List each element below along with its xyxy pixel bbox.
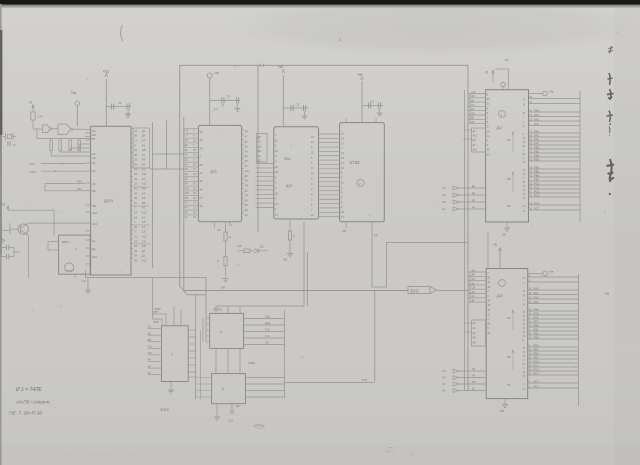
IC D18 internal port marks (512, 310, 514, 330)
svg-text:ПР: ПР (185, 196, 189, 200)
capacitor C4 (0, 247, 6, 249)
DD7 right wires (188, 329, 195, 331)
IC D17 bottom ground (506, 222, 508, 228)
wire rail left end (84, 270, 86, 278)
svg-text:БУС: БУС (411, 288, 419, 293)
wire down to ground G1 (87, 278, 89, 289)
resistor R2 (50, 140, 53, 151)
svg-text:17: 17 (134, 139, 137, 143)
DD7 left pin stubs (148, 328, 162, 330)
svg-text:РА4: РА4 (534, 307, 539, 311)
svg-text:А1: А1 (185, 215, 189, 219)
svg-text:П16: П16 (77, 180, 82, 184)
svg-text:+5в: +5в (504, 58, 509, 62)
svg-text:А7: А7 (142, 191, 146, 195)
svg-text:РА2: РА2 (534, 295, 539, 299)
wire gate input network (33, 128, 42, 130)
svg-text:РВ7: РВ7 (534, 355, 540, 359)
svg-text:Д2: Д2 (245, 154, 249, 158)
IC DD5 body (serial) (210, 313, 244, 348)
capacitor C5 (0, 256, 6, 258)
wire D101 bottom rail (85, 278, 206, 314)
series RC row below D11 (237, 250, 244, 252)
quartz crystal Q1 (5, 133, 7, 140)
svg-text:СЕ: СЕ (218, 229, 222, 232)
svg-text:РС3: РС3 (534, 193, 540, 197)
svg-text:А10: А10 (185, 191, 190, 195)
wire vertical x166 (165, 120, 167, 169)
faint mark bottom right of center (387, 447, 394, 451)
svg-text:А1: А1 (92, 239, 96, 243)
svg-text:+5: +5 (29, 101, 33, 105)
svg-text:38: 38 (134, 134, 137, 138)
svg-text:ДхД: ДхД (265, 321, 270, 325)
wire transistor collector (26, 223, 85, 224)
svg-text:С3: С3 (227, 95, 231, 99)
svg-text:СТ: СТ (142, 153, 146, 157)
right margin dot (609, 193, 611, 195)
transistor VT1 (18, 224, 28, 234)
svg-text:РА6: РА6 (534, 315, 539, 319)
svg-text:РС2: РС2 (534, 367, 540, 371)
svg-text:Д3: Д3 (245, 159, 249, 163)
svg-text:RD: RD (142, 201, 146, 205)
IC D18 body (486, 269, 528, 399)
svg-text:А12: А12 (471, 91, 476, 94)
svg-text:И 1 = 74ЛЕ: И 1 = 74ЛЕ (16, 387, 42, 393)
svg-text:А2: А2 (142, 215, 146, 219)
crystal circle inside G1 (65, 263, 74, 272)
svg-text:РА5: РА5 (534, 311, 539, 315)
svg-text:CS: CS (142, 239, 146, 243)
D18 top right +5B circle (528, 273, 543, 275)
svg-text:СТ: СТ (185, 134, 189, 138)
svg-text:А12: А12 (142, 211, 147, 215)
svg-text:Д5: Д5 (185, 158, 189, 162)
power +5V feed of D11 (209, 78, 211, 125)
DD6 right signal lines (245, 377, 284, 379)
svg-text:РС3: РС3 (534, 371, 540, 375)
svg-text:РВ3: РВ3 (534, 157, 540, 161)
scanner top black bar (0, 0, 640, 4)
svg-text:16: 16 (134, 211, 137, 215)
svg-text:РА7: РА7 (534, 141, 539, 145)
right margin smudge 5 (608, 127, 611, 136)
svg-text:ПА: ПА (507, 317, 511, 320)
svg-text:CS: CS (185, 129, 189, 133)
signal bus vertical x284 (284, 310, 286, 398)
svg-text:36: 36 (134, 196, 137, 200)
IC D11 right pin labels (242, 129, 244, 131)
bus frame second vertical (184, 117, 206, 295)
svg-text:РВ5: РВ5 (534, 169, 540, 173)
svg-text:РА0: РА0 (534, 108, 539, 112)
svg-text:36: 36 (134, 225, 137, 229)
svg-text:ВК: ВК (245, 203, 249, 207)
IC D17 left data pin group (468, 93, 486, 95)
bus vertical x206 lower (205, 313, 207, 342)
IC D18 lower-left control pins (460, 370, 487, 372)
decoupling capacitors of D13 (283, 107, 308, 109)
IC D18 bottom ground (504, 399, 506, 404)
logic gate DD1.1 (43, 125, 51, 133)
wire BUS to right section (437, 290, 469, 292)
svg-text:Д6: Д6 (245, 208, 249, 212)
svg-text:Д2: Д2 (245, 189, 249, 193)
right margin smudge 3 (607, 89, 614, 100)
svg-text:А13: А13 (148, 352, 153, 355)
svg-text:ОВ: ОВ (500, 409, 504, 413)
svg-text:А1: А1 (442, 389, 446, 393)
svg-text:33: 33 (134, 244, 137, 248)
svg-text:Д2: Д2 (142, 254, 146, 258)
right outer bus vertical lower (577, 274, 579, 406)
svg-text:R: R (293, 234, 295, 238)
svg-text:С6: С6 (371, 100, 375, 104)
svg-text:ПР: ПР (185, 138, 189, 142)
wires G1 left side (48, 241, 59, 243)
svg-text:РС0: РС0 (534, 359, 540, 363)
diode VD1 row (213, 222, 215, 228)
bus vertical x195 serial (195, 295, 197, 399)
svg-text:ТхС: ТхС (265, 334, 270, 338)
svg-text:РВ5: РВ5 (534, 347, 540, 351)
svg-text:ВМ: ВМ (148, 339, 152, 342)
resistor R3 (59, 140, 62, 151)
IC D17 left select group box (472, 128, 486, 152)
svg-text:РВ2: РВ2 (534, 331, 540, 335)
wire transistor emitter to rail (26, 234, 29, 242)
svg-text:А13: А13 (92, 255, 97, 259)
svg-text:ОЕ: ОЕ (245, 184, 249, 188)
svg-text:С/Вах: С/Вах (248, 361, 256, 365)
svg-text:23: 23 (134, 148, 137, 152)
svg-text:А3: А3 (142, 196, 146, 200)
svg-text:А4: А4 (257, 154, 261, 158)
svg-text:+5: +5 (2, 203, 6, 207)
power feed of D14 (361, 81, 363, 123)
svg-text:ТхД: ТхД (265, 315, 270, 319)
svg-text:А10: А10 (185, 186, 190, 190)
svg-text:4,7к: 4,7к (38, 115, 44, 119)
svg-text:ВК: ВК (471, 117, 475, 120)
faint paren mark top-left (121, 25, 123, 41)
svg-text:С1: С1 (118, 101, 122, 105)
IC D101 address/data label column (133, 128, 150, 168)
svg-text:А12: А12 (142, 259, 147, 263)
svg-text:С5: С5 (296, 103, 300, 107)
wire bus to D11 column (150, 168, 184, 170)
svg-text:ПВ: ПВ (507, 178, 511, 181)
bus vertical between D11 and D13 (257, 65, 259, 232)
svg-text:ТхД: ТхД (362, 378, 367, 382)
IC DD7 body left (162, 326, 189, 382)
power +5V feed of D18 (499, 248, 501, 269)
svg-text:39: 39 (134, 177, 137, 181)
svg-text:Д6: Д6 (142, 134, 146, 138)
svg-text:Д3: Д3 (245, 174, 249, 178)
wire from D17 down to D18 (487, 232, 489, 269)
svg-text:РС7: РС7 (534, 384, 540, 388)
IC D17 body (486, 90, 529, 222)
IC D14 top pin stubs (345, 118, 347, 123)
lower chain below D11 (224, 257, 227, 266)
svg-text:А12: А12 (92, 211, 97, 215)
svg-text:А1: А1 (442, 207, 446, 211)
svg-text:ПР: ПР (471, 121, 475, 124)
D17 top right +5B circle (529, 93, 543, 95)
svg-text:ПЗА: ПЗА (284, 157, 291, 161)
IC D18 right port lines (528, 276, 579, 278)
IC D11 body (198, 125, 241, 221)
svg-text:РС1: РС1 (534, 363, 540, 367)
svg-text:А5: А5 (245, 149, 249, 153)
svg-text:ЗП: ЗП (473, 342, 477, 345)
svg-text:+5в: +5в (549, 90, 554, 94)
signal P16 (45, 183, 85, 185)
svg-text:ЗП: ЗП (442, 193, 446, 197)
svg-text:А6: А6 (92, 182, 96, 186)
wire caps to box (13, 248, 15, 257)
right outer bus vertical upper (579, 91, 581, 222)
wire transistor base (10, 228, 18, 230)
svg-text:Д11: Д11 (211, 170, 218, 174)
DD7 top wires (165, 313, 167, 325)
svg-text:А5: А5 (185, 210, 189, 214)
svg-text:А0: А0 (442, 382, 446, 386)
svg-text:33: 33 (134, 249, 137, 253)
resistor R1 (31, 112, 35, 120)
signal P14 (45, 190, 85, 192)
svg-text:РА3: РА3 (534, 300, 539, 304)
svg-text:РС0: РС0 (534, 181, 540, 185)
svg-text:РА1: РА1 (534, 291, 539, 295)
svg-text:ОПР: ОПР (153, 320, 159, 324)
IC D18 left data pin group (468, 271, 486, 273)
right margin smudge 1 (608, 46, 613, 54)
arrow inputs left edge (1, 239, 5, 243)
svg-text:А4: А4 (245, 130, 249, 134)
svg-text:Д1: Д1 (142, 129, 146, 133)
svg-text:ОЕ: ОЕ (92, 204, 96, 208)
svg-text:Д0: Д0 (185, 177, 189, 181)
junction marks on top frame (259, 64, 261, 68)
svg-text:А7: А7 (245, 135, 249, 139)
label column group marks (133, 167, 150, 169)
paper crease line (8, 451, 560, 456)
svg-text:А3: А3 (142, 143, 146, 147)
IC D17 internal port marks (512, 132, 514, 152)
resistor R4 (69, 140, 72, 151)
svg-text:А5: А5 (245, 213, 249, 217)
svg-text:ЧТ: ЧТ (185, 206, 189, 210)
IC D14 body (340, 123, 385, 222)
BUS label arrow (408, 287, 430, 294)
svg-text:1в: 1в (605, 291, 610, 296)
wire rail to Ku113 top (227, 306, 229, 313)
svg-text:РВ0: РВ0 (534, 323, 540, 327)
svg-text:РС2: РС2 (534, 189, 540, 193)
resistor network rail (49, 138, 93, 140)
power +5V feed of D13 (282, 75, 284, 127)
DD6 bottom ground (216, 404, 218, 417)
svg-text:РВ1: РВ1 (534, 327, 540, 331)
svg-text:А12: А12 (473, 148, 478, 151)
IC D17 lower-left control pins (460, 187, 486, 189)
decoupling capacitors C1 C2 (106, 106, 131, 108)
logic gate DD1.2 (58, 124, 71, 135)
IC D101 left pin stubs (85, 129, 90, 131)
bus frame right vertical (467, 65, 469, 390)
BUS output line (375, 290, 408, 292)
svg-text:34: 34 (134, 254, 137, 258)
svg-text:А1: А1 (142, 225, 146, 229)
svg-text:ОВ: ОВ (221, 286, 225, 290)
svg-text:РВ0: РВ0 (534, 145, 540, 149)
svg-text:7: 7 (171, 353, 173, 357)
BUS vertical down to serial (374, 291, 376, 382)
components below D11: resistor chain (225, 222, 227, 232)
svg-text:Д3: Д3 (257, 135, 261, 139)
svg-text:RD: RD (472, 381, 476, 384)
svg-text:С4: С4 (214, 107, 218, 111)
svg-text:36: 36 (134, 259, 137, 263)
IC D101 body (91, 126, 131, 275)
wires resistor bottoms to D101 (50, 151, 52, 157)
svg-text:RD: RD (142, 244, 146, 248)
svg-text:А13: А13 (473, 135, 478, 138)
svg-text:А4: А4 (185, 153, 189, 157)
faint blob bottom center (253, 424, 265, 429)
svg-text:Д2: Д2 (92, 247, 96, 251)
DD6 left stubs (196, 377, 212, 379)
svg-text:+5в: +5в (549, 270, 554, 274)
svg-text:РВ6: РВ6 (534, 351, 540, 355)
svg-text:ЛГФ2: ЛГФ2 (154, 307, 161, 311)
DD5 DD6 interconnect stubs (215, 348, 217, 373)
svg-text:РА2: РА2 (534, 117, 539, 121)
IC D13 label box left (257, 134, 268, 163)
DD5 left stubs (206, 317, 210, 319)
svg-text:+5Б: +5Б (214, 71, 219, 75)
svg-text:РА3: РА3 (534, 122, 539, 126)
long TxD wire to BUS (285, 382, 375, 384)
svg-text:РА6: РА6 (534, 137, 539, 141)
svg-text:РС4: РС4 (534, 379, 540, 383)
svg-text:CS: CS (142, 220, 146, 224)
svg-text:Пкв: Пкв (71, 91, 77, 95)
svg-text:А3: А3 (142, 206, 146, 210)
svg-text:WR: WR (142, 148, 147, 152)
svg-text:А8: А8 (92, 156, 96, 160)
svg-text:RD: RD (471, 95, 475, 98)
svg-text:+5Б: +5Б (278, 65, 284, 69)
svg-text:40: 40 (134, 191, 137, 195)
svg-text:Д101: Д101 (104, 198, 114, 203)
svg-text:А11: А11 (245, 169, 250, 173)
IC D101 right pin stubs (131, 128, 133, 130)
svg-text:ПЕ. 7. 36=П 38: ПЕ. 7. 36=П 38 (9, 411, 42, 417)
svg-text:А12: А12 (142, 235, 147, 239)
svg-text:18: 18 (134, 239, 137, 243)
svg-text:РВ1: РВ1 (534, 149, 540, 153)
svg-text:Д3: Д3 (257, 159, 261, 163)
IC D13 body (274, 127, 319, 219)
svg-text:А11: А11 (142, 172, 147, 176)
IC DD6 body (212, 374, 246, 404)
svg-text:РА7: РА7 (534, 319, 539, 323)
bus vertical below D13 (216, 222, 304, 313)
svg-text:РВ6: РВ6 (534, 173, 540, 177)
svg-text:А2: А2 (245, 164, 249, 168)
svg-text:CS: CS (148, 326, 152, 329)
svg-text:Д18: Д18 (497, 294, 503, 298)
svg-text:А8: А8 (92, 189, 96, 193)
svg-text:РА0: РА0 (534, 286, 539, 290)
svg-text:тхд: тхд (299, 355, 304, 359)
wire +5 rail to clock box (8, 210, 54, 235)
svg-text:18: 18 (134, 215, 137, 219)
svg-text:+5: +5 (493, 243, 497, 247)
svg-text:Д1: Д1 (142, 249, 146, 253)
svg-text:РА5: РА5 (534, 133, 539, 137)
svg-text:А0: А0 (92, 169, 96, 173)
svg-text:2732: 2732 (350, 160, 361, 165)
svg-text:Д1: Д1 (185, 148, 189, 152)
svg-text:ЗП: ЗП (442, 376, 446, 380)
svg-text:ПР: ПР (374, 234, 378, 238)
svg-text:СТ: СТ (185, 201, 189, 205)
svg-text:21: 21 (134, 201, 137, 205)
svg-text:РВ4: РВ4 (534, 343, 540, 347)
svg-text:35: 35 (134, 163, 137, 167)
svg-text:38: 38 (134, 153, 137, 157)
serial ladder verticals (200, 330, 202, 399)
IC D11 left pin labels (184, 128, 199, 130)
svg-text:О.м: О.м (228, 419, 233, 423)
svg-text:19: 19 (134, 129, 137, 133)
right margin smudge 4 (607, 111, 614, 126)
IC D14 bottom stubs (345, 222, 347, 228)
wire gate output to D101 (73, 128, 85, 130)
svg-text:ОУС: ОУС (30, 170, 37, 174)
svg-text:29: 29 (134, 172, 137, 176)
svg-text:А3: А3 (257, 140, 261, 144)
svg-text:100: 100 (237, 244, 242, 248)
svg-text:ОВ: ОВ (342, 229, 346, 233)
svg-text:ЧТ: ЧТ (442, 186, 446, 190)
svg-text:РС7: РС7 (534, 206, 540, 210)
svg-text:КП13: КП13 (161, 408, 169, 412)
bus hatch between D13 and D14 (319, 133, 340, 135)
DD6 bottom signal (231, 404, 233, 411)
svg-text:Г: Г (75, 248, 77, 252)
svg-text:А13: А13 (92, 222, 97, 226)
IC D17 right port lines (529, 98, 581, 100)
bus frame left vertical (180, 65, 375, 290)
svg-text:+12: +12 (81, 279, 86, 283)
svg-text:А9: А9 (245, 198, 249, 202)
svg-text:ЧТ: ЧТ (442, 369, 446, 373)
svg-text:А9: А9 (185, 167, 189, 171)
ground below DD7 (170, 382, 172, 390)
svg-text:РВ3: РВ3 (534, 335, 540, 339)
svg-text:21: 21 (134, 235, 137, 239)
svg-text:СТ: СТ (142, 139, 146, 143)
svg-text:А0: А0 (142, 177, 146, 181)
IC D18 left select group box (472, 320, 486, 346)
svg-text:ОЕ: ОЕ (472, 287, 476, 290)
